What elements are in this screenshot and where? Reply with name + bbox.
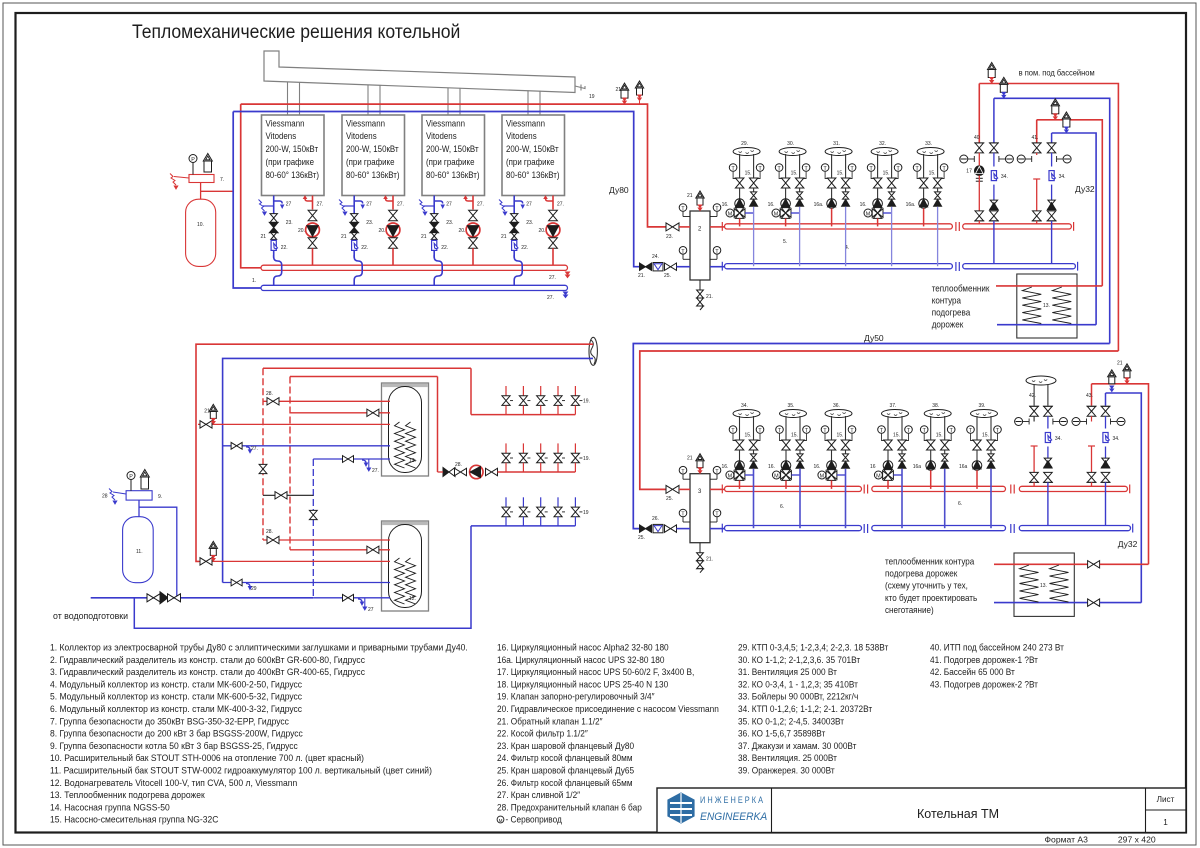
- valve: [898, 440, 906, 445]
- check valve flap: [796, 199, 804, 206]
- svg-text:27.: 27.: [397, 202, 404, 208]
- valve: [927, 440, 936, 445]
- svg-text:Viessmann: Viessmann: [346, 118, 385, 129]
- svg-text:16.: 16.: [860, 202, 867, 208]
- balancing valve 23: [350, 222, 359, 227]
- supply stub to collector: [831, 480, 833, 489]
- header to manifold 1: [470, 368, 472, 414]
- return drop to collector: [937, 207, 939, 266]
- heat exchanger 13 lower: [1014, 553, 1074, 616]
- pump 17: [978, 155, 980, 166]
- circuit 40 supply line: [978, 84, 980, 144]
- tank coil: [395, 558, 405, 604]
- mixer bridge: [791, 212, 800, 214]
- tank riser: [200, 183, 202, 200]
- radiator valve 19: [540, 497, 542, 507]
- return drop with crossing jog: [514, 251, 522, 286]
- svg-text:снеготаяние): снеготаяние): [885, 605, 934, 615]
- supply stub to collector: [923, 208, 925, 226]
- strainer 26: [653, 524, 663, 532]
- tank coil: [395, 422, 405, 468]
- track-1 return blue line: [1052, 133, 1097, 325]
- radiator valve 19: [557, 386, 559, 396]
- load circuit 30. ellipse: [779, 148, 806, 156]
- svg-text:15.: 15.: [791, 433, 798, 439]
- valve: [796, 440, 804, 445]
- red collector segment 2: [963, 224, 1072, 229]
- exchanger coil: [1050, 565, 1069, 602]
- svg-text:M: M: [876, 474, 881, 480]
- svg-text:T: T: [823, 428, 827, 434]
- flue riser: [459, 88, 461, 115]
- valve: [1047, 211, 1056, 216]
- radiator valve 19: [505, 386, 507, 396]
- svg-text:21.: 21.: [706, 294, 713, 300]
- svg-text:24. Фильтр косой фланцевый 80м: 24. Фильтр косой фланцевый 80мм: [497, 753, 633, 763]
- circuit pipes: [887, 416, 889, 435]
- check valve: [751, 192, 757, 196]
- svg-text:41. Подогрев дорожек-1 ?Вт: 41. Подогрев дорожек-1 ?Вт: [930, 655, 1038, 665]
- radiator valve 19: [574, 443, 576, 453]
- circuit pipes: [930, 416, 932, 435]
- drain cock 27: [514, 201, 523, 204]
- thermometer: [729, 164, 737, 172]
- boiler pump 20: [306, 223, 320, 237]
- tank2 port5 cold water feed: [313, 597, 390, 599]
- svg-text:27: 27: [286, 202, 292, 208]
- return drop to collector: [799, 207, 801, 266]
- valve 23: [665, 263, 671, 270]
- supply stub to collector: [831, 208, 833, 226]
- thermometer: [756, 426, 764, 434]
- load circuit 36. ellipse: [825, 410, 852, 418]
- svg-text:1: 1: [1163, 818, 1168, 827]
- mixer bridge: [745, 212, 754, 214]
- balancing port: [1063, 155, 1071, 163]
- svg-text:T: T: [896, 166, 900, 172]
- svg-text:34.: 34.: [741, 403, 748, 409]
- circuit 40 return side valve: [993, 98, 995, 142]
- svg-text:T: T: [758, 166, 762, 172]
- load circuit 31. ellipse: [825, 148, 852, 156]
- supply stub to collector: [930, 470, 932, 489]
- svg-text:27.: 27.: [557, 202, 564, 208]
- svg-text:M: M: [774, 212, 779, 218]
- svg-text:34.: 34.: [1113, 436, 1120, 442]
- svg-text:21.: 21.: [706, 557, 713, 563]
- check valve flap: [898, 461, 906, 468]
- svg-text:P: P: [191, 157, 195, 163]
- tank1 port3 long red line: [198, 423, 390, 425]
- thermometer: [775, 164, 783, 172]
- svg-text:подогрева: подогрева: [932, 307, 971, 317]
- thermometer: [803, 426, 811, 434]
- check valve: [988, 454, 994, 458]
- safety vent 21 on main: [621, 90, 628, 98]
- svg-text:16.: 16.: [768, 202, 775, 208]
- svg-text:35.: 35.: [788, 403, 795, 409]
- strainer 22: [352, 240, 358, 250]
- safety group 9: [126, 491, 152, 500]
- lower blue collector segment 2: [872, 526, 1006, 531]
- manifold 3 line (blue): [471, 525, 575, 527]
- svg-text:23.: 23.: [446, 220, 453, 226]
- svg-text:T: T: [731, 166, 735, 172]
- union break: [1010, 524, 1012, 533]
- blow-off zigzag: [109, 489, 115, 501]
- svg-text:15.: 15.: [837, 433, 844, 439]
- check valve: [797, 192, 803, 196]
- mixer bridge: [893, 474, 902, 476]
- supply stub to collector: [785, 480, 787, 489]
- valve: [1030, 472, 1039, 477]
- svg-text:39.: 39.: [979, 403, 986, 409]
- union break: [955, 222, 957, 231]
- expansion pipe: [201, 190, 234, 192]
- svg-text:27: 27: [446, 202, 452, 208]
- svg-text:37.: 37.: [890, 403, 897, 409]
- thermometer: [878, 426, 886, 434]
- svg-text:1.: 1.: [252, 278, 256, 284]
- svg-text:13.: 13.: [1043, 303, 1050, 309]
- svg-text:23.: 23.: [366, 220, 373, 226]
- svg-text:10.: 10.: [197, 222, 204, 228]
- circuit pipes: [739, 416, 741, 435]
- mixer bridge: [883, 212, 892, 214]
- load circuit 33. ellipse: [917, 148, 944, 156]
- svg-text:9.: 9.: [158, 494, 162, 500]
- svg-text:теплообменник контура: теплообменник контура: [885, 556, 975, 566]
- union: [976, 177, 983, 179]
- svg-text:(схему уточнить у тех,: (схему уточнить у тех,: [885, 580, 968, 590]
- svg-text:7. Группа безопасности до 350к: 7. Группа безопасности до 350кВт BSG-350…: [50, 716, 290, 726]
- svg-text:27.: 27.: [372, 468, 379, 474]
- svg-text:Viessmann: Viessmann: [266, 118, 305, 129]
- return drop to collector: [901, 469, 903, 528]
- vent on pool return: [1000, 84, 1007, 92]
- return drop to collector: [990, 469, 992, 528]
- svg-text:(при графике: (при графике: [506, 157, 555, 168]
- circuit 41 return side valve: [1051, 133, 1053, 143]
- svg-text:27. Кран сливной 1/2″: 27. Кран сливной 1/2″: [497, 790, 580, 800]
- valve: [1033, 211, 1042, 216]
- svg-text:(при графике: (при графике: [426, 157, 475, 168]
- check valve: [1048, 200, 1055, 204]
- svg-text:15.: 15.: [837, 171, 844, 177]
- svg-text:от водоподготовки: от водоподготовки: [53, 611, 128, 621]
- strainer: [1047, 416, 1049, 428]
- svg-text:T: T: [715, 469, 719, 475]
- svg-text:200-W, 150кВт: 200-W, 150кВт: [266, 144, 319, 155]
- svg-text:Vitodens: Vitodens: [266, 131, 297, 142]
- mixer bridge: [745, 474, 754, 476]
- svg-text:8. Группа безопасности до 200: 8. Группа безопасности до 200 кВт 3 бар …: [50, 728, 303, 738]
- svg-text:80-60° 136кВт): 80-60° 136кВт): [506, 169, 560, 180]
- exchanger coil: [1022, 287, 1041, 324]
- tank riser + link: [138, 500, 140, 517]
- svg-text:16: 16: [870, 464, 876, 470]
- svg-text:36. КО 1-5,6,7 35898Вт: 36. КО 1-5,6,7 35898Вт: [738, 728, 825, 738]
- tank2 port1 line + valve 28: [263, 539, 390, 541]
- valve: [469, 210, 478, 215]
- svg-text:23.: 23.: [666, 234, 673, 240]
- svg-text:27.: 27.: [549, 275, 556, 281]
- svg-text:297 х 420: 297 х 420: [1118, 835, 1156, 845]
- check valve: [797, 454, 803, 458]
- svg-text:35. КО 0-1,2; 2-4,5. 34003Вт: 35. КО 0-1,2; 2-4,5. 34003Вт: [738, 716, 844, 726]
- pump 16.: [831, 450, 833, 461]
- radiator valve 19: [540, 443, 542, 453]
- svg-text:T: T: [778, 428, 782, 434]
- boiler safety blow-off: [419, 200, 425, 212]
- svg-text:32. КО 0-3,4, 1 - 1,2,3; 35 4: 32. КО 0-3,4, 1 - 1,2,3; 35 410Вт: [738, 679, 858, 689]
- separator thermometers: [679, 204, 687, 212]
- svg-text:Viessmann: Viessmann: [506, 118, 545, 129]
- svg-text:15.: 15.: [745, 433, 752, 439]
- pipe break symbol: [589, 337, 597, 365]
- manifold 1 line: [471, 414, 575, 416]
- DHW circulation pump 18: [470, 465, 483, 478]
- svg-text:27.: 27.: [477, 202, 484, 208]
- svg-text:Лист: Лист: [1157, 795, 1175, 804]
- thermometer: [802, 164, 810, 172]
- DHW pump row: check valve: [443, 468, 449, 477]
- safety valve vent: [204, 161, 212, 172]
- supply stub to collector: [785, 218, 787, 226]
- check valve: [1044, 458, 1051, 462]
- vent: [210, 548, 216, 555]
- check valve: [842, 454, 848, 458]
- drain cock 27: [466, 199, 474, 202]
- svg-text:200-W, 150кВт: 200-W, 150кВт: [506, 144, 559, 155]
- circuit pipes: [831, 416, 833, 435]
- valve: [351, 214, 358, 218]
- supply drop: [392, 248, 394, 265]
- strainer 22: [271, 240, 277, 250]
- svg-text:23.: 23.: [286, 220, 293, 226]
- svg-text:25.: 25.: [664, 273, 671, 279]
- boiler 1 return pipe: [273, 196, 275, 215]
- svg-text:34.: 34.: [1055, 436, 1062, 442]
- flue riser: [527, 90, 529, 115]
- svg-text:И Н Ж Е Н Е Р К А: И Н Ж Е Н Е Р К А: [700, 794, 763, 805]
- interconnect valves: [259, 464, 267, 469]
- svg-text:16.: 16.: [768, 464, 775, 470]
- svg-text:17. Циркуляционный насос UPS 5: 17. Циркуляционный насос UPS 50-60/2 F, …: [497, 667, 694, 677]
- svg-text:25. Кран шаровой фланцевый Ду: 25. Кран шаровой фланцевый Ду65: [497, 765, 634, 775]
- svg-text:T: T: [915, 166, 919, 172]
- main return pipe Ду80 (blue): [233, 112, 639, 267]
- radiator valve 19: [574, 497, 576, 507]
- svg-text:14. Насосная группа NGSS-50: 14. Насосная группа NGSS-50: [50, 802, 170, 812]
- svg-text:31.: 31.: [833, 141, 840, 147]
- separator top safety vent 21: [697, 461, 703, 468]
- svg-text:Ду32: Ду32: [1075, 184, 1095, 194]
- thermometer: [821, 426, 829, 434]
- svg-text:34.: 34.: [1059, 174, 1066, 180]
- return drop with crossing jog: [354, 251, 362, 286]
- pump 16: [887, 450, 889, 461]
- return drop to collector: [845, 469, 847, 528]
- safety valve vent: [141, 477, 149, 489]
- svg-text:27.: 27.: [547, 295, 554, 301]
- svg-text:22.: 22.: [281, 245, 288, 251]
- svg-text:22.: 22.: [441, 245, 448, 251]
- circuit 43 supply from line: [1091, 384, 1093, 406]
- svg-text:19: 19: [583, 510, 589, 516]
- balancing port: [1017, 155, 1025, 163]
- tank1 port1 line + valve 28: [263, 400, 390, 402]
- valve: [455, 468, 461, 475]
- svg-text:22.: 22.: [521, 245, 528, 251]
- svg-text:29. КТП 0-3,4,5; 1-2,3,4; 2-2: 29. КТП 0-3,4,5; 1-2,3,4; 2-2,3. 18 538В…: [738, 642, 888, 652]
- valve: [795, 178, 804, 183]
- supply stub to collector: [739, 218, 741, 226]
- svg-text:T: T: [777, 166, 781, 172]
- hydraulic separator 2: [690, 211, 710, 280]
- svg-text:15.: 15.: [982, 433, 989, 439]
- check valve 21: [351, 233, 357, 236]
- svg-text:T: T: [996, 428, 1000, 434]
- svg-text:Ду32: Ду32: [1118, 539, 1138, 549]
- flue riser: [299, 82, 301, 115]
- svg-text:15.: 15.: [791, 171, 798, 177]
- svg-text:29: 29: [251, 586, 257, 592]
- cold water line от водоподготовки: [91, 597, 314, 599]
- recirc drain: [368, 459, 370, 468]
- load circuit 39. ellipse: [971, 410, 998, 418]
- svg-text:6.: 6.: [780, 504, 784, 510]
- mixing valve with servo M: [785, 207, 787, 210]
- flue riser: [367, 85, 369, 115]
- svg-text:16а. Циркуляционный насос UPS: 16а. Циркуляционный насос UPS 32-80 180: [497, 655, 665, 665]
- union break: [1010, 485, 1012, 494]
- drain cock 27: [354, 201, 363, 204]
- svg-text:в пом. под бассейном: в пом. под бассейном: [1019, 68, 1095, 77]
- svg-text:33. Бойлеры 90 000Вт, 2212кг/ч: 33. Бойлеры 90 000Вт, 2212кг/ч: [738, 691, 858, 701]
- separator top safety vent 21: [697, 198, 703, 205]
- boiler 3 supply pipe: [472, 196, 474, 210]
- check valve: [843, 192, 849, 196]
- load circuit 37. ellipse: [882, 410, 909, 418]
- strainer: [1105, 416, 1107, 428]
- svg-text:6. Модульный коллектор из конс: 6. Модульный коллектор из констр. стали …: [50, 704, 303, 714]
- svg-text:37. Джакузи и хамам. 30 000Вт: 37. Джакузи и хамам. 30 000Вт: [738, 741, 857, 751]
- svg-text:30.: 30.: [787, 141, 794, 147]
- valve: [308, 238, 317, 243]
- svg-text:21: 21: [261, 234, 267, 240]
- track-1 supply red line: [1037, 120, 1103, 286]
- thermometer: [848, 164, 856, 172]
- svg-text:M: M: [728, 212, 733, 218]
- svg-text:36.: 36.: [833, 403, 840, 409]
- svg-text:16.: 16.: [722, 202, 729, 208]
- svg-text:27.: 27.: [251, 446, 258, 452]
- load circuit 32. ellipse: [871, 148, 898, 156]
- svg-text:13.: 13.: [1040, 583, 1047, 589]
- svg-text:21: 21: [1117, 361, 1123, 367]
- exchanger secondary line (blue): [997, 324, 1096, 326]
- return drop: [993, 221, 995, 264]
- valve: [389, 210, 398, 215]
- svg-text:25.: 25.: [666, 496, 673, 502]
- pump 16.: [739, 188, 741, 199]
- svg-text:25.: 25.: [638, 535, 645, 541]
- svg-text:200-W, 150кВт: 200-W, 150кВт: [426, 144, 479, 155]
- boiler 3 return pipe: [433, 196, 435, 215]
- svg-text:T: T: [681, 206, 685, 212]
- svg-text:M: M: [820, 474, 825, 480]
- svg-text:15.: 15.: [893, 433, 900, 439]
- tank1 port5 blue recirc: [313, 458, 390, 460]
- valve: [389, 238, 398, 243]
- circuit 42 load ellipse: [1026, 376, 1056, 385]
- lower red collector segment 1: [710, 488, 725, 490]
- thermometer: [920, 426, 928, 434]
- circuit pipes: [877, 154, 879, 173]
- svg-text:19.: 19.: [583, 456, 590, 462]
- svg-text:11.: 11.: [136, 549, 143, 555]
- svg-text:T: T: [681, 512, 685, 518]
- expansion tank 11 (blue, 100 l): [123, 517, 154, 583]
- svg-text:ENGINEERKA: ENGINEERKA: [700, 811, 767, 823]
- svg-text:Формат А3: Формат А3: [1045, 835, 1089, 845]
- svg-text:200-W, 150кВт: 200-W, 150кВт: [346, 144, 399, 155]
- balancing valve 23: [430, 222, 439, 227]
- svg-text:23.: 23.: [526, 220, 533, 226]
- svg-text:T: T: [731, 428, 735, 434]
- Ду50 return (blue): [633, 344, 1109, 529]
- svg-text:27: 27: [526, 202, 532, 208]
- drain cock 27: [305, 199, 313, 202]
- svg-text:T: T: [804, 166, 808, 172]
- svg-text:20. Гидравлическое присоединен: 20. Гидравлическое присоединение с насос…: [497, 704, 719, 714]
- title block frame: [657, 788, 1186, 833]
- strainer 34: [1051, 153, 1053, 167]
- check valve flap: [987, 461, 995, 468]
- svg-text:Vitodens: Vitodens: [346, 131, 377, 142]
- tank2 port3 from left rail: [199, 560, 390, 562]
- supply drop: [312, 248, 314, 265]
- drain cock 27: [274, 201, 283, 204]
- boiler 4 return pipe: [513, 196, 515, 215]
- lower blue collector segment 3: [1019, 526, 1130, 531]
- svg-text:43.: 43.: [1086, 393, 1093, 399]
- svg-text:28: 28: [102, 494, 108, 500]
- check valve: [990, 200, 997, 204]
- svg-text:1. Коллектор из электросварной: 1. Коллектор из электросварной трубы Ду8…: [50, 642, 468, 652]
- svg-text:15. Насосно-смесительная групп: 15. Насосно-смесительная группа NG-32C: [50, 815, 218, 825]
- valve: [987, 440, 995, 445]
- flue riser: [447, 88, 449, 116]
- svg-text:22. Косой фильтр 1.1/2″: 22. Косой фильтр 1.1/2″: [497, 728, 588, 738]
- supply stub to collector: [887, 480, 889, 489]
- valve: [735, 440, 744, 445]
- thermometer: [940, 164, 948, 172]
- svg-text:27.: 27.: [317, 202, 324, 208]
- lower blue collector segment 1: [710, 528, 725, 530]
- svg-text:28. Предохранительный клапан 6: 28. Предохранительный клапан 6 бар: [497, 802, 642, 812]
- svg-text:29.: 29.: [741, 141, 748, 147]
- boiler 2 return pipe: [353, 196, 355, 215]
- svg-text:подогрева дорожек: подогрева дорожек: [885, 568, 958, 578]
- mixing valve with servo M: [739, 469, 741, 472]
- circuit pipes: [785, 154, 787, 173]
- svg-text:16a: 16a: [913, 464, 922, 470]
- svg-text:39. Оранжерея. 30 000Вт: 39. Оранжерея. 30 000Вт: [738, 765, 835, 775]
- recirc vertical: [312, 459, 314, 598]
- svg-text:41.: 41.: [1032, 135, 1039, 141]
